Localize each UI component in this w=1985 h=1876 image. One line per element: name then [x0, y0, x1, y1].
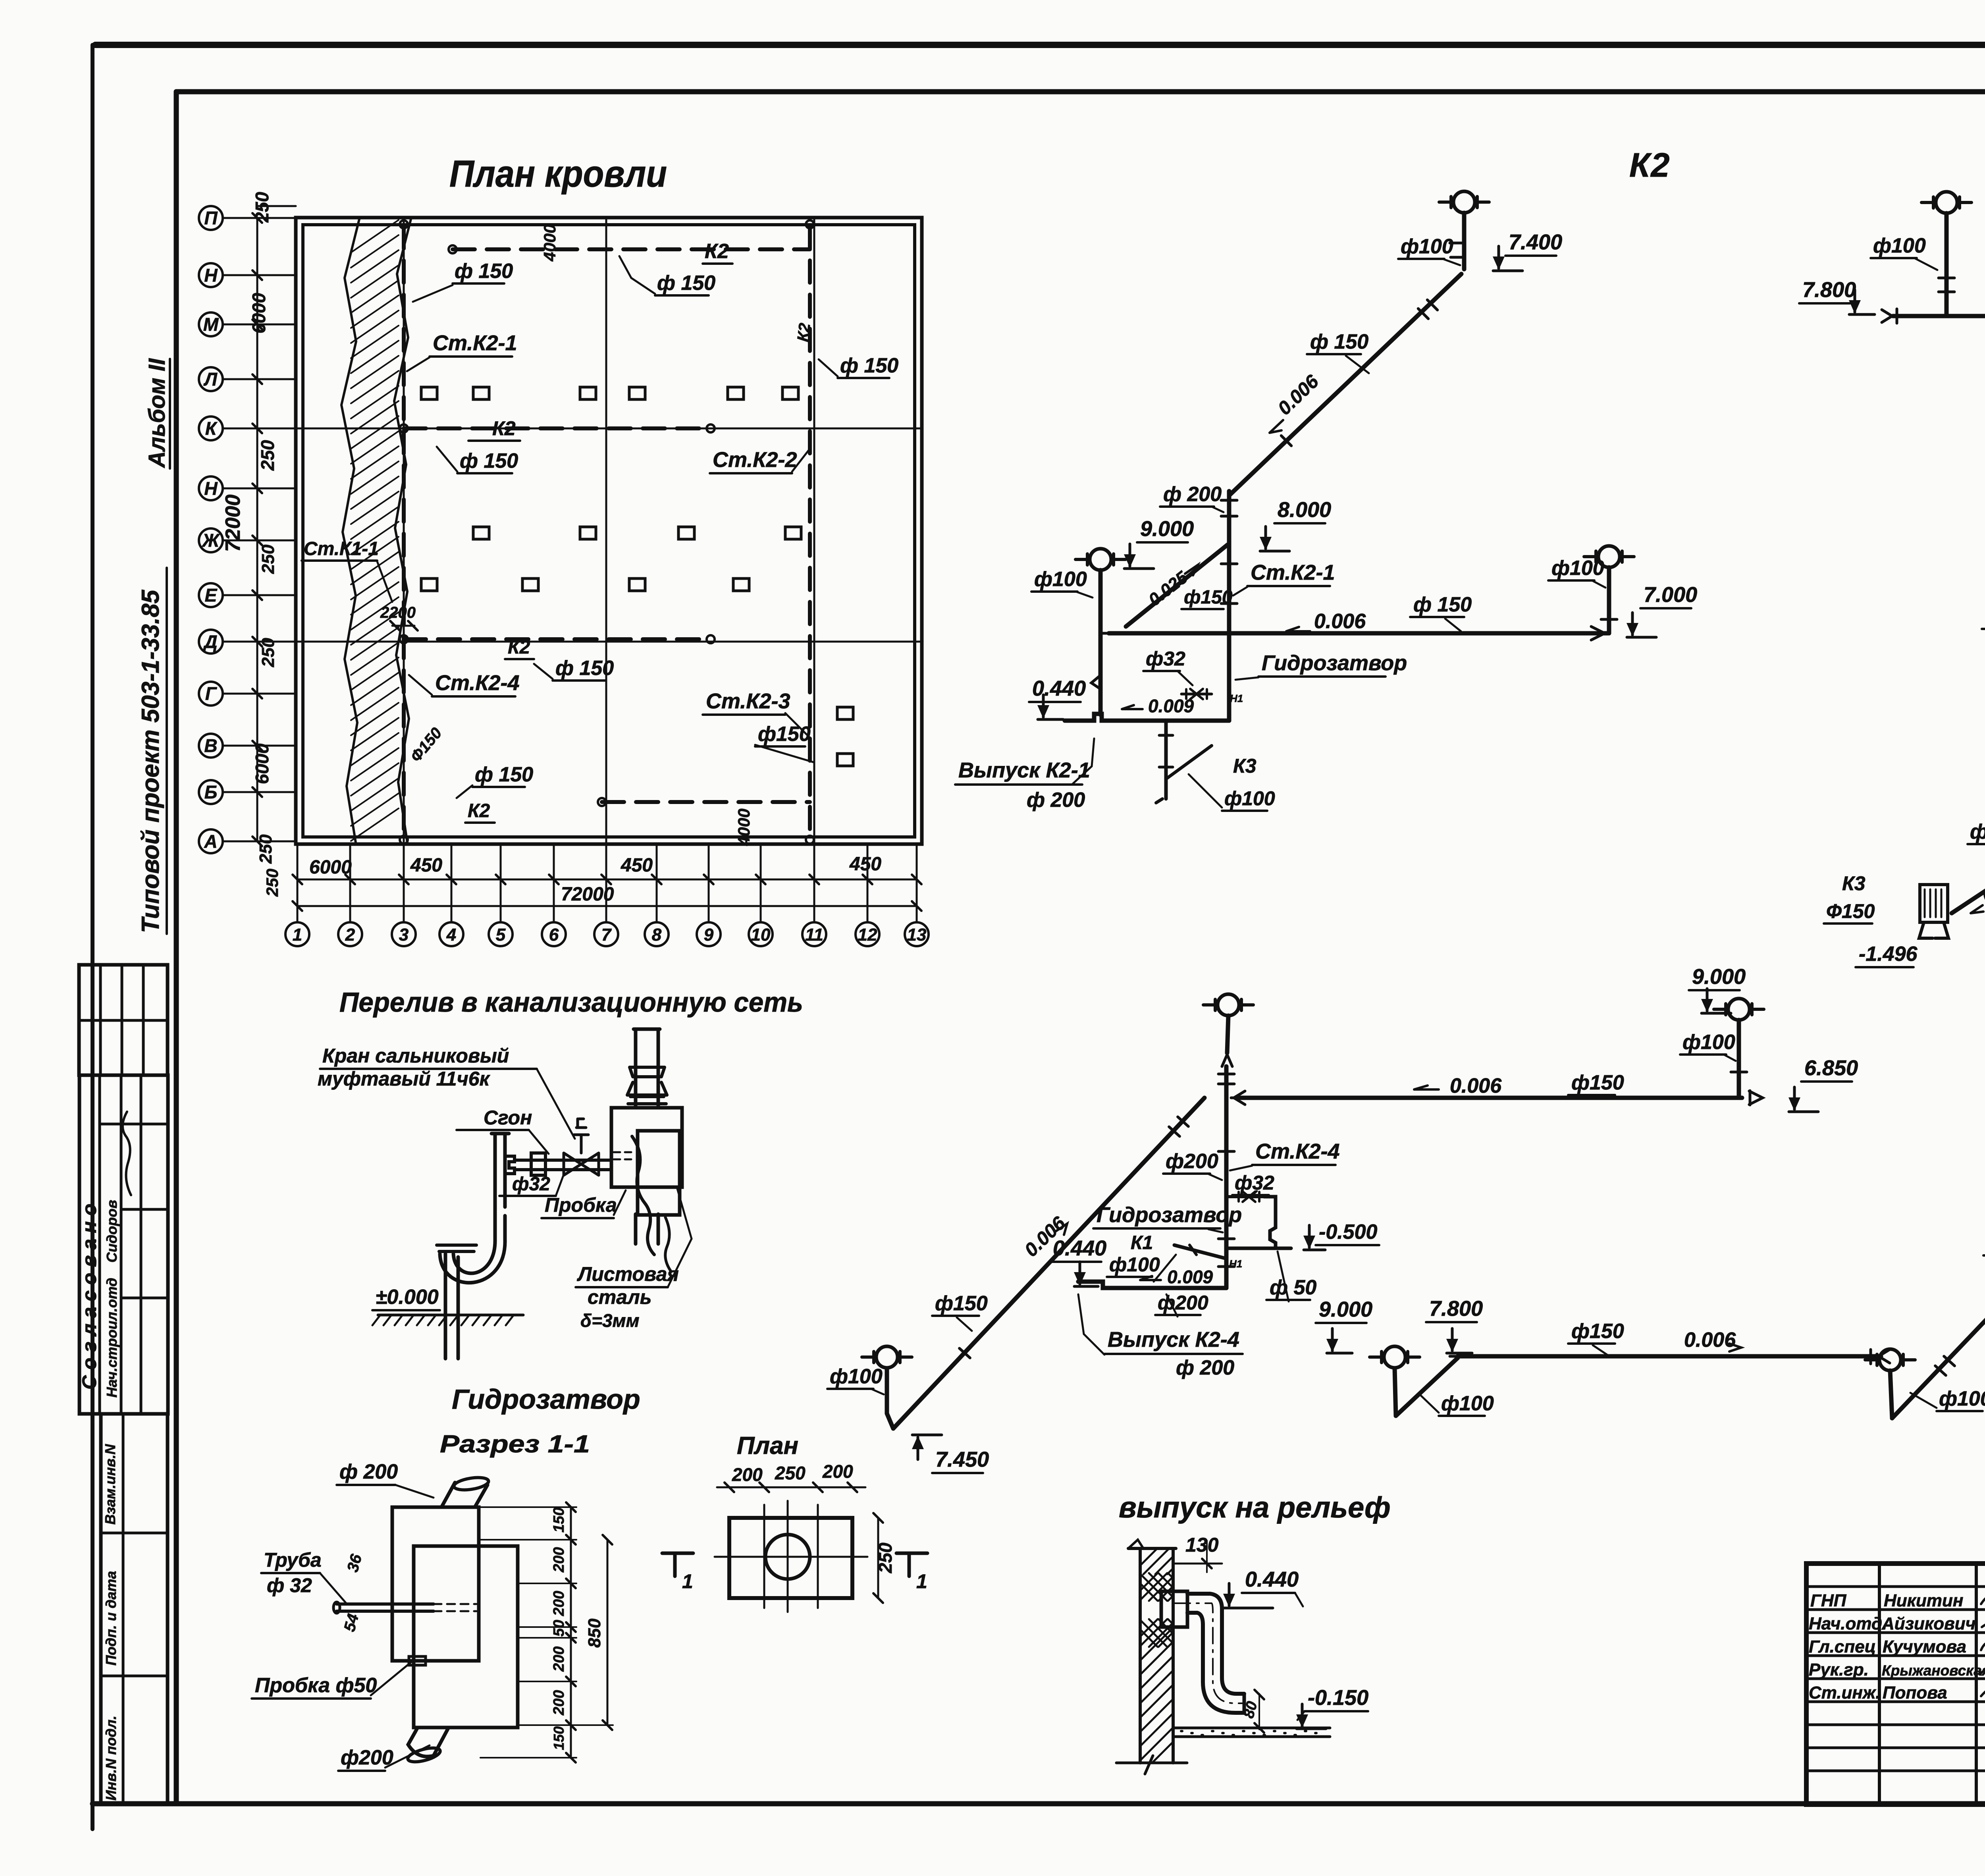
overflow hook pipe f50: [1264, 1197, 1276, 1248]
sheet steel tank inner: [638, 1131, 680, 1215]
tap valve: [1181, 689, 1212, 699]
svg-text:450: 450: [410, 855, 442, 876]
svg-text:Айзикович: Айзикович: [1881, 1614, 1975, 1633]
svg-text:7.000: 7.000: [1644, 583, 1697, 607]
funnel stem pipe: [1945, 213, 1949, 316]
bottom dimension line 1: [297, 879, 917, 881]
svg-text:ф100: ф100: [1682, 1031, 1735, 1054]
hatched break band in plan: [341, 219, 359, 843]
row axis Н2 circle: [199, 476, 223, 500]
drain funnel St.K2-3 bottom: [1865, 1349, 1915, 1371]
cross hatch insulation: [1130, 1573, 1215, 1601]
row axis K full line: [296, 428, 922, 430]
svg-text:ф150: ф150: [758, 723, 811, 746]
riser St.K2-1: [1227, 491, 1231, 721]
svg-text:Альбом II: Альбом II: [144, 358, 170, 469]
drain connection pipe: [1226, 1247, 1291, 1250]
signature in margin: [123, 1112, 131, 1195]
svg-text:200: 200: [551, 1690, 567, 1716]
dim line 250: [877, 1518, 879, 1598]
svg-text:сталь: сталь: [588, 1286, 651, 1308]
svg-text:Г: Г: [205, 683, 217, 704]
dim 850 line: [607, 1540, 609, 1725]
svg-text:Разрез 1-1: Разрез 1-1: [440, 1431, 590, 1458]
pipe f150 slope 0.025: [1126, 545, 1228, 627]
ground hatch line: [378, 1314, 523, 1317]
elevation mark 7.800: [1849, 290, 1875, 314]
pipe elbow outline: [1187, 1594, 1244, 1694]
pipe flange in wall: [1161, 1591, 1187, 1627]
elevation mark 9.000: [1326, 1328, 1352, 1353]
row axis Е circle: [199, 583, 223, 607]
svg-text:К2: К2: [1629, 147, 1671, 184]
svg-text:250: 250: [263, 869, 281, 897]
roof element square: [785, 527, 801, 539]
row axis Н line: [223, 274, 296, 276]
pipe circle: [765, 1535, 810, 1579]
funnel stem pipe: [1395, 1368, 1396, 1416]
diagonal hatch top: [1131, 1542, 1223, 1574]
svg-text:Гидрозатвор: Гидрозатвор: [1262, 651, 1407, 675]
drain funnel St.K2-4 top: [1203, 994, 1253, 1016]
svg-text:9: 9: [704, 925, 714, 945]
svg-text:7.450: 7.450: [935, 1448, 989, 1471]
section mark 1 left: [662, 1553, 693, 1576]
svg-text:К1: К1: [1131, 1232, 1153, 1253]
svg-text:К2: К2: [705, 240, 729, 263]
svg-text:Ст.К1-1: Ст.К1-1: [304, 538, 379, 559]
svg-text:130: 130: [1185, 1534, 1219, 1556]
row axis Н2 line: [223, 488, 296, 490]
funnel stem pipe: [1462, 213, 1467, 269]
pipe f150 slope 0.006 diagonal: [1229, 274, 1461, 496]
svg-text:ф 150: ф 150: [1413, 593, 1472, 616]
svg-text:ф100: ф100: [1401, 235, 1453, 258]
roof element square: [837, 754, 853, 766]
column axis 8 stub line: [656, 844, 658, 922]
svg-text:Е: Е: [205, 585, 218, 605]
svg-text:250: 250: [258, 638, 278, 667]
elevation mark 7.450: [912, 1435, 942, 1460]
roof element square: [421, 387, 437, 399]
column axis 7 stub line: [605, 844, 607, 922]
elevation mark 0.440: [1074, 1262, 1098, 1286]
svg-text:ф 200: ф 200: [1027, 789, 1085, 812]
dashed K2 route row K: [404, 426, 711, 430]
svg-text:ф100: ф100: [1034, 568, 1087, 591]
P-trap: [440, 1240, 505, 1283]
svg-text:6000: 6000: [309, 857, 352, 878]
sheet outer top border: [95, 42, 1985, 48]
svg-text:выпуск на рельеф: выпуск на рельеф: [1119, 1491, 1391, 1524]
column axis 3 line: [403, 218, 405, 844]
sheet outer left border: [91, 45, 94, 1829]
wall break bottom: [1116, 1756, 1187, 1774]
svg-text:2200: 2200: [380, 604, 416, 621]
leader: [614, 1190, 626, 1215]
svg-text:ф 200: ф 200: [1176, 1356, 1234, 1379]
dim line: [717, 1487, 865, 1488]
svg-text:6000: 6000: [249, 293, 269, 334]
axis line: [715, 1556, 867, 1558]
f32 pipe into box: [337, 1604, 434, 1611]
svg-text:Ж: Ж: [202, 530, 220, 551]
pipe f150 slope 0.006 diagonal: [893, 1098, 1204, 1429]
P-trap drop pipe: [445, 1254, 458, 1359]
dashed K2 route vertical col3: [402, 226, 406, 840]
svg-text:200: 200: [551, 1647, 567, 1672]
roof element square: [782, 387, 798, 399]
svg-text:В: В: [204, 735, 217, 756]
svg-text:2: 2: [345, 925, 355, 945]
svg-text:72000: 72000: [222, 494, 245, 552]
svg-text:10: 10: [751, 925, 771, 945]
svg-text:Д: Д: [202, 631, 217, 652]
row axis Б line: [223, 791, 296, 793]
vent triangle: [1222, 1055, 1232, 1066]
svg-text:9.000: 9.000: [1692, 965, 1746, 989]
sewer well K3: [1920, 885, 1948, 922]
axis line: [787, 1501, 789, 1612]
svg-text:ф100: ф100: [1551, 557, 1604, 580]
svg-text:7: 7: [601, 925, 612, 945]
svg-text:0.009: 0.009: [1167, 1267, 1213, 1287]
axis line: [817, 1505, 819, 1608]
svg-text:К2: К2: [492, 417, 516, 440]
svg-text:Ст.К2-1: Ст.К2-1: [1251, 561, 1335, 584]
svg-text:Кран сальниковый: Кран сальниковый: [322, 1045, 509, 1067]
column axis 13 stub line: [916, 844, 918, 922]
elevation mark 0.440: [1037, 695, 1063, 719]
roof element square: [522, 578, 538, 591]
svg-text:Перелив в канализационную сеть: Перелив в канализационную сеть: [339, 987, 803, 1018]
leader: [371, 1662, 411, 1695]
svg-text:250: 250: [256, 834, 276, 864]
row axis П circle: [199, 206, 223, 230]
elevation mark -0.150: [1296, 1704, 1326, 1729]
column axis 9 circle: [697, 922, 721, 946]
svg-text:7.800: 7.800: [1429, 1297, 1483, 1321]
svg-text:ГНП: ГНП: [1810, 1591, 1847, 1610]
drain funnel second collector: [1370, 1346, 1420, 1368]
pipe open end: [1243, 1694, 1246, 1713]
svg-text:-0.500: -0.500: [1319, 1220, 1378, 1244]
row axis А line: [223, 841, 296, 843]
funnel stem pipe: [885, 1368, 889, 1413]
outlet pipe Vypusk K2-1: [1065, 714, 1229, 721]
svg-text:δ=3мм: δ=3мм: [580, 1310, 640, 1331]
tap stem and handle: [574, 1119, 588, 1153]
row axis М line: [223, 324, 296, 326]
route junction: [707, 635, 715, 643]
plug symbol: [409, 1656, 426, 1665]
svg-text:7.800: 7.800: [1802, 278, 1856, 302]
svg-text:Ст.К2-4: Ст.К2-4: [1255, 1139, 1340, 1163]
svg-text:Рук.гр.: Рук.гр.: [1809, 1660, 1869, 1679]
elevation mark 7.000: [1627, 613, 1656, 637]
svg-text:Сгон: Сгон: [484, 1107, 532, 1129]
svg-text:ф 150: ф 150: [555, 657, 614, 680]
water level dashes: [614, 1151, 635, 1153]
funnel stem pipe: [1607, 567, 1611, 633]
roof element square: [728, 387, 744, 399]
route junction: [400, 220, 408, 228]
svg-text:0.440: 0.440: [1245, 1568, 1299, 1591]
collector pipe f150 slope 0.006: [1239, 1096, 1742, 1100]
wall section lines: [1128, 1548, 1176, 1763]
svg-text:72000: 72000: [561, 884, 614, 905]
svg-text:К2: К2: [468, 800, 490, 821]
route junction: [400, 635, 408, 643]
dashed K2 route row D: [404, 637, 711, 641]
dashed K2 route top: [453, 247, 810, 251]
svg-text:Подп. и дата: Подп. и дата: [103, 1571, 119, 1666]
svg-text:К: К: [205, 418, 218, 439]
elevation mark 9.000: [1701, 989, 1731, 1013]
dimension chain right: [570, 1507, 572, 1758]
overflow stand pipe: [491, 1134, 509, 1239]
column axis 7 line: [605, 218, 607, 844]
drain funnel St.K2-1 right: [1584, 546, 1634, 567]
svg-text:0.440: 0.440: [1032, 677, 1086, 700]
roof element square: [473, 527, 489, 539]
svg-text:Ф150: Ф150: [1826, 900, 1875, 922]
svg-text:1: 1: [682, 1570, 693, 1593]
svg-text:50: 50: [551, 1620, 567, 1637]
collector pipe f150 slope 0.006: [1893, 314, 1985, 318]
stand pipe side tee: [505, 1156, 515, 1174]
row axis Д circle: [199, 630, 223, 654]
column axis 10 circle: [749, 922, 773, 946]
svg-text:Кучумова: Кучумова: [1883, 1637, 1966, 1656]
svg-text:Крыжановская: Крыжановская: [1882, 1662, 1985, 1679]
elevation mark 8.000: [1260, 526, 1289, 551]
svg-text:План: План: [737, 1432, 798, 1460]
svg-text:Инв.N подл.: Инв.N подл.: [103, 1716, 119, 1801]
roof element square: [421, 578, 437, 591]
column axis 5 stub line: [500, 844, 502, 922]
row axis Е line: [223, 594, 296, 596]
column axis 12 stub line: [867, 844, 869, 922]
route junction: [598, 798, 606, 806]
outlet pipe sloped bottom: [415, 1728, 449, 1756]
building outline outer: [296, 218, 922, 844]
overflow S-curve: [632, 1136, 654, 1255]
outlet pipe Vypusk K2-4: [1078, 1282, 1226, 1288]
margin revision table: [79, 965, 168, 1075]
roof element square: [678, 527, 694, 539]
svg-text:А: А: [204, 831, 217, 852]
elevation mark 7.400: [1493, 246, 1522, 271]
svg-text:ф100: ф100: [1109, 1253, 1160, 1276]
row axis Ж line: [223, 540, 296, 542]
svg-text:ф150: ф150: [1184, 587, 1233, 608]
svg-text:Нач.отд.: Нач.отд.: [1809, 1614, 1887, 1633]
section body upper box: [392, 1507, 479, 1661]
svg-text:9.000: 9.000: [1319, 1298, 1372, 1321]
svg-text:Выпуск К2-1: Выпуск К2-1: [958, 758, 1090, 782]
roof element square: [733, 578, 749, 591]
svg-text:6: 6: [549, 925, 559, 945]
column axis 6 circle: [542, 922, 566, 946]
route junction: [806, 836, 814, 844]
svg-text:Н: Н: [204, 478, 218, 499]
svg-text:ф 150: ф 150: [455, 260, 513, 283]
svg-text:ф50: ф50: [1970, 820, 1985, 843]
svg-text:Нач.строил.отд: Нач.строил.отд: [104, 1278, 120, 1398]
column axis 1 stub line: [297, 844, 299, 922]
svg-text:Гл.спец: Гл.спец: [1809, 1637, 1876, 1656]
svg-text:ф100: ф100: [830, 1365, 883, 1388]
pipe f150 slope 0.006 diagonal: [1892, 1136, 1985, 1418]
roof element square: [580, 527, 596, 539]
svg-text:Гидрозатвор: Гидрозатвор: [1097, 1203, 1242, 1227]
margin table Soglasovano: [79, 1075, 168, 1414]
title block left grid: [1878, 1564, 1881, 1805]
drain funnel St.K2-1 roof: [1439, 191, 1489, 213]
route junction: [707, 424, 715, 432]
svg-text:250: 250: [875, 1542, 896, 1573]
svg-text:Попова: Попова: [1883, 1683, 1947, 1702]
svg-text:4000: 4000: [540, 224, 559, 262]
section body lower box: [414, 1546, 518, 1728]
svg-text:450: 450: [849, 854, 881, 875]
svg-text:0.006: 0.006: [1684, 1328, 1736, 1352]
svg-text:150: 150: [551, 1726, 567, 1750]
route junction: [449, 245, 457, 253]
route junction: [400, 424, 408, 432]
leader: [395, 1485, 434, 1498]
left dimension chain: [256, 218, 258, 841]
axis line: [763, 1505, 765, 1608]
dashed K2 route vertical col11: [808, 226, 812, 840]
svg-text:0.006: 0.006: [1314, 610, 1366, 633]
column axis 13 circle: [905, 922, 929, 946]
svg-text:4: 4: [446, 925, 456, 945]
vertical drain pipe: [634, 1029, 660, 1244]
svg-text:ф100: ф100: [1939, 1387, 1985, 1410]
main pipe f150 slope 0.006: [1109, 631, 1608, 636]
column axis 3 circle: [392, 922, 416, 946]
svg-text:8: 8: [652, 925, 662, 945]
column axis 5 circle: [489, 922, 513, 946]
svg-text:6000: 6000: [252, 743, 272, 784]
pipe centerline: [1174, 1603, 1244, 1703]
svg-text:Н1: Н1: [1230, 692, 1243, 704]
column axis 4 stub line: [451, 844, 453, 922]
row axis В circle: [199, 734, 223, 758]
svg-text:-0.150: -0.150: [1308, 1686, 1368, 1710]
roof element square: [837, 707, 853, 719]
margin table inv table: [101, 1414, 168, 1804]
row axis Л circle: [199, 367, 223, 391]
svg-text:Никитин: Никитин: [1884, 1591, 1963, 1610]
column axis 7 circle: [594, 922, 618, 946]
svg-text:Труба: Труба: [264, 1549, 322, 1571]
svg-text:Н: Н: [204, 265, 218, 285]
elevation mark 0.440: [1223, 1583, 1273, 1608]
lower bell hub: [628, 1097, 666, 1104]
svg-text:Согласовано: Согласовано: [78, 1198, 100, 1390]
row axis К line: [223, 428, 296, 430]
row axis А circle: [199, 829, 223, 853]
svg-text:Гидрозатвор: Гидрозатвор: [452, 1384, 640, 1415]
drop pipe to outlet: [1098, 633, 1103, 715]
svg-text:0.440: 0.440: [1053, 1236, 1106, 1260]
svg-text:850: 850: [585, 1618, 604, 1648]
svg-text:5: 5: [496, 925, 506, 945]
tap valve: [1234, 1192, 1264, 1202]
row axis Ж circle: [199, 528, 223, 552]
row axis М circle: [199, 312, 223, 336]
leader: [385, 1745, 430, 1768]
svg-text:Л: Л: [203, 369, 218, 389]
row axis Г circle: [199, 682, 223, 706]
drain funnel St.K2-2 left: [1921, 192, 1972, 213]
svg-text:Выпуск К2-4: Выпуск К2-4: [1108, 1328, 1239, 1352]
roof element square: [629, 387, 645, 399]
column axis 4 circle: [439, 922, 463, 946]
svg-text:7.400: 7.400: [1509, 230, 1562, 254]
svg-text:М: М: [203, 314, 219, 335]
svg-text:ф150: ф150: [935, 1292, 988, 1315]
elevation mark 7.800: [1446, 1328, 1472, 1353]
building outline inner: [303, 225, 915, 837]
elevation mark 6.850: [1788, 1087, 1818, 1112]
column axis 3 stub line: [403, 844, 405, 922]
svg-text:Ст.К2-3: Ст.К2-3: [706, 689, 790, 713]
frame bottom line: [93, 1801, 1985, 1807]
svg-text:ф200: ф200: [1166, 1150, 1218, 1173]
collector pipe f150 7.800: [1458, 1354, 1881, 1359]
svg-text:200: 200: [551, 1547, 567, 1573]
svg-text:К2: К2: [508, 637, 530, 658]
svg-text:Ст.инж.: Ст.инж.: [1809, 1683, 1881, 1702]
route junction: [806, 220, 814, 228]
svg-text:ф 200: ф 200: [339, 1460, 398, 1483]
svg-text:ф150: ф150: [1571, 1320, 1624, 1343]
svg-text:250: 250: [258, 544, 278, 574]
svg-text:ф 150: ф 150: [460, 449, 518, 472]
svg-text:0.006: 0.006: [1450, 1074, 1502, 1097]
svg-text:11: 11: [805, 925, 823, 945]
stem elbow f100: [1396, 1358, 1458, 1416]
svg-text:Ст.К2-1: Ст.К2-1: [433, 331, 517, 355]
svg-text:ф32: ф32: [1235, 1172, 1274, 1194]
svg-text:Листовая: Листовая: [577, 1263, 679, 1285]
sgon coupling: [531, 1153, 545, 1175]
row axis Б circle: [199, 780, 223, 804]
svg-text:200: 200: [732, 1464, 763, 1485]
elevation mark 9.000: [1124, 544, 1154, 569]
svg-text:±0.000: ±0.000: [376, 1286, 439, 1309]
drain funnel St.K2-1 left: [1075, 549, 1125, 570]
branch pipe K3: [1164, 721, 1168, 799]
row axis Г line: [223, 693, 296, 695]
branch pipe K1: [1174, 1245, 1226, 1259]
funnel stem pipe: [1098, 570, 1103, 633]
svg-text:ф200: ф200: [1158, 1292, 1208, 1314]
row axis D full line: [296, 641, 922, 643]
svg-text:ф150: ф150: [1571, 1071, 1624, 1094]
roof element square: [629, 578, 645, 591]
svg-text:250: 250: [775, 1463, 806, 1483]
svg-text:200: 200: [551, 1591, 567, 1616]
svg-text:8.000: 8.000: [1278, 498, 1331, 522]
title block outer: [1806, 1564, 1985, 1805]
svg-text:9.000: 9.000: [1140, 517, 1194, 541]
wall break top: [1128, 1540, 1143, 1548]
